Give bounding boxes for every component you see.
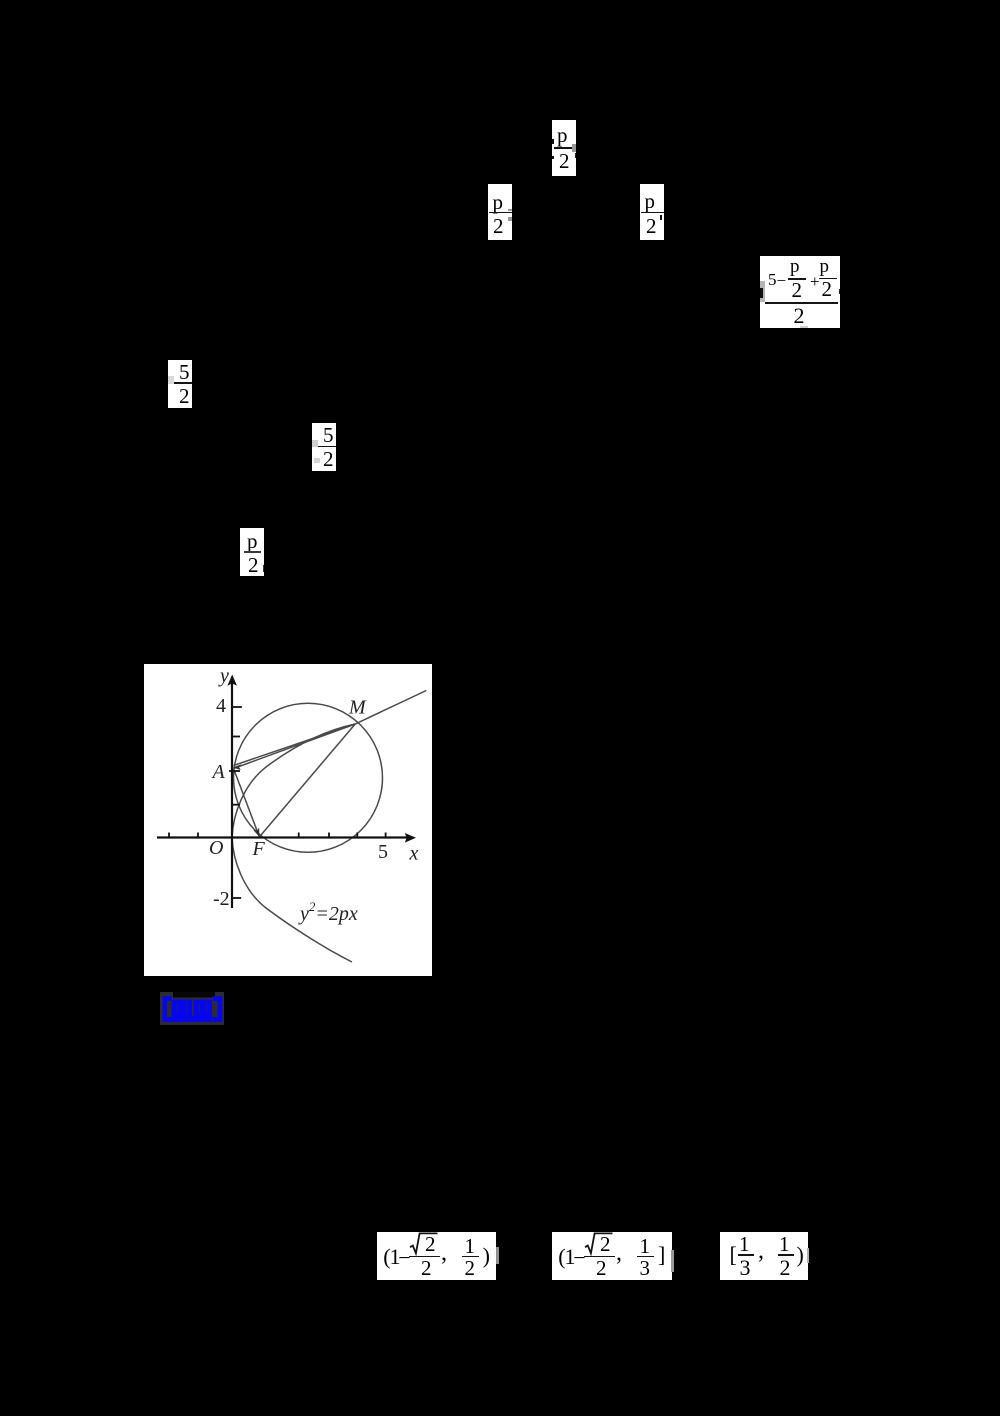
x axis arrow [405, 833, 416, 843]
y axis [231, 677, 233, 908]
blue highlighted label [160, 992, 224, 1025]
gray fragment after box A [496, 1247, 499, 1264]
svg-text:y2=2px: y2=2px [298, 899, 358, 925]
chord line to M [234, 724, 356, 769]
labels [209, 665, 419, 865]
figure: parabola, circle, axes [144, 664, 432, 976]
svg-text:y: y [218, 665, 229, 687]
fraction p/2 box 3 [640, 184, 664, 240]
svg-text:-2: -2 [213, 888, 230, 910]
bottom interval box C [720, 1232, 808, 1280]
svg-text:4: 4 [216, 695, 226, 717]
svg-text:A: A [211, 761, 226, 783]
svg-text:x: x [409, 843, 419, 865]
line F-M [259, 724, 355, 837]
line A-F [234, 769, 260, 837]
bottom interval box B [552, 1232, 672, 1280]
x axis [157, 677, 407, 908]
circle through A F M [234, 703, 383, 852]
parabola upper branch [232, 724, 355, 838]
fraction p/2 box 4 [240, 528, 264, 576]
svg-text:F: F [252, 838, 266, 860]
fraction 5/2 box 2 [312, 423, 336, 471]
line A-M extended beyond M [234, 691, 427, 766]
svg-text:5: 5 [378, 841, 388, 863]
gray fragment after box C [807, 1248, 809, 1264]
gray fragment after box B [671, 1250, 675, 1272]
fraction 5/2 box 1 [168, 360, 192, 409]
y axis arrow [227, 675, 237, 686]
parabola lower branch [232, 838, 352, 963]
ticks [169, 707, 386, 898]
svg-text:M: M [348, 697, 367, 719]
svg-text:O: O [209, 837, 223, 859]
arrow at A [233, 764, 242, 770]
bottom interval box A [377, 1232, 496, 1280]
big fraction (5-p/2+p/2)/2 box [760, 256, 840, 328]
arrow at F [253, 828, 259, 838]
fraction p/2 box 2 [488, 184, 512, 240]
fraction p/2 box 1 [552, 120, 576, 176]
